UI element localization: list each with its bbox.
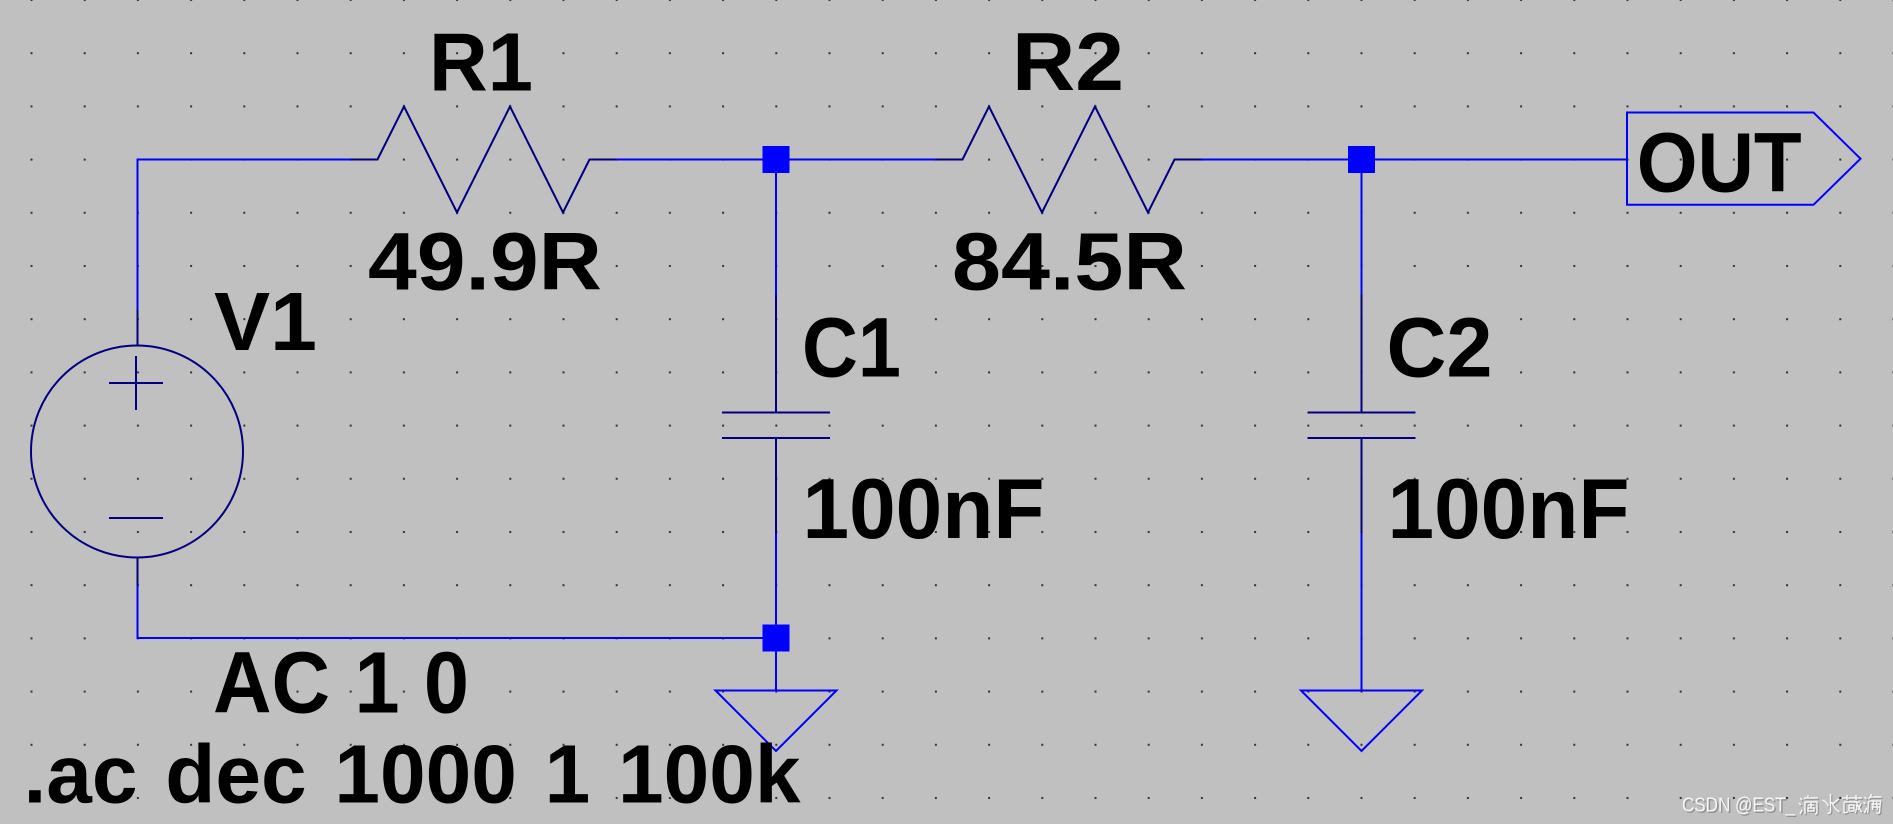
wire R2 right to OUT port (1201, 159, 1627, 161)
svg-text:100nF: 100nF (1388, 462, 1630, 557)
ground (C2 net) (1301, 691, 1422, 752)
watermark char 水 (1823, 794, 1841, 814)
wire C2 bottom to ground (1361, 533, 1363, 691)
ground (C1 / V1 net) (716, 691, 837, 752)
resistor R2 (936, 107, 1201, 213)
resistor R1 (351, 107, 616, 213)
svg-text:100nF: 100nF (803, 462, 1045, 557)
node B (R2/C2/OUT) junction (1348, 146, 1375, 173)
wire R1 right to R2 left (through node N001) (616, 159, 936, 161)
wire node N001 down to C1 (775, 160, 777, 296)
svg-text:OUT: OUT (1637, 116, 1802, 210)
wire node OUT down to C2 (1361, 160, 1363, 296)
svg-text:V1: V1 (214, 276, 317, 368)
watermark char 海 (1864, 794, 1883, 815)
svg-text:CSDN @EST_: CSDN @EST_ (1682, 795, 1796, 817)
node C (V1-/C1 bottom) junction (763, 625, 790, 652)
capacitor C1 (722, 295, 830, 533)
svg-text:C1: C1 (802, 300, 901, 394)
wire V1 top to R1 left (138, 160, 352, 311)
port flag OUT (1627, 113, 1861, 205)
watermark char 藏 (1842, 795, 1863, 814)
capacitor C2 (1308, 295, 1416, 533)
svg-text:R1: R1 (429, 16, 533, 109)
watermark char 滴 (1799, 795, 1819, 815)
svg-text:.ac dec 1000 1 100k: .ac dec 1000 1 100k (24, 729, 801, 821)
svg-text:R2: R2 (1012, 15, 1124, 108)
svg-text:AC 1 0: AC 1 0 (213, 635, 469, 732)
wire V1 bottom to C1 ground node (138, 585, 777, 638)
svg-text:49.9R: 49.9R (368, 216, 602, 307)
svg-text:C2: C2 (1387, 301, 1493, 395)
node A (R1/R2/C1) junction (763, 146, 790, 173)
svg-text:84.5R: 84.5R (952, 217, 1187, 308)
watermark CSDN @EST_ (latin) (1682, 795, 1797, 819)
wire C1 bottom to ground (775, 533, 777, 691)
voltage source V1 (31, 310, 243, 585)
